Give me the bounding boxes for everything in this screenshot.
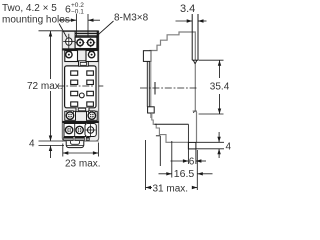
leader mounting holes xyxy=(59,24,67,38)
svg-text:−0.1: −0.1 xyxy=(71,9,84,16)
centerline side view xyxy=(140,87,197,89)
dim 72: extension top xyxy=(39,30,63,32)
terminal screw row1 a xyxy=(79,38,81,47)
divider line 2 xyxy=(62,121,98,123)
bottom tab xyxy=(66,141,84,148)
row3 left block xyxy=(65,111,76,120)
dim 72: line xyxy=(50,31,52,79)
dim 31: line xyxy=(146,187,153,189)
svg-text:31 max.: 31 max. xyxy=(153,184,189,195)
lever line xyxy=(155,123,189,125)
arrow 4R down xyxy=(217,137,220,143)
body bottom edge xyxy=(62,140,98,142)
dim 4 right: ext lines xyxy=(196,141,224,143)
arrow 6b right xyxy=(196,159,202,162)
body top edge xyxy=(62,30,98,32)
svg-text:6: 6 xyxy=(189,157,195,168)
mounting hole top-left xyxy=(66,38,72,46)
dim 23: line xyxy=(63,152,99,154)
dim 4 left ext lines xyxy=(39,140,64,142)
pin slot L3 xyxy=(71,91,78,95)
dim 3.4: line xyxy=(176,20,193,22)
clip vertical segment xyxy=(154,82,156,95)
arrow 4R up xyxy=(217,149,220,155)
dim 4 left below line xyxy=(50,146,52,159)
pin slot R2 xyxy=(87,80,94,84)
clip channel right line xyxy=(197,14,199,60)
arrow 16.5 right xyxy=(197,172,203,175)
row2 right screw xyxy=(89,51,94,53)
socket body xyxy=(62,31,98,141)
row1 screw box xyxy=(75,37,97,48)
arrow 3.4 left xyxy=(187,19,193,22)
front face gray back line xyxy=(150,51,152,118)
top strip hatch lines xyxy=(75,32,99,34)
dim 35.4: ext lines xyxy=(199,59,224,61)
row2 left screw xyxy=(66,51,71,53)
dim 6 top: extension lines xyxy=(75,14,77,37)
svg-text:mounting holes: mounting holes xyxy=(2,15,70,26)
row4 blocks outline xyxy=(64,124,86,137)
svg-text:4: 4 xyxy=(226,142,232,153)
bottom rail hook xyxy=(193,111,197,113)
side profile staircase top xyxy=(150,32,196,60)
bottom slot xyxy=(78,108,86,111)
mounting hole bottom-right xyxy=(85,124,96,137)
arrow 4L down xyxy=(49,136,52,142)
right edge lower xyxy=(193,111,197,113)
dim 31: ext lines xyxy=(145,140,147,190)
dim 16.5: line xyxy=(159,173,172,175)
arrow 23 left xyxy=(63,151,69,154)
svg-text:Two, 4.2 × 5: Two, 4.2 × 5 xyxy=(2,3,57,14)
arrow 31 right xyxy=(192,186,198,189)
bottom left edge black xyxy=(156,135,160,137)
terminal screw row1 b xyxy=(90,38,92,47)
top-right edge band xyxy=(97,31,99,49)
arrowheads xyxy=(49,19,221,190)
row3 left screw xyxy=(66,112,73,119)
pin slot R3 xyxy=(87,91,94,95)
row4 screw a xyxy=(65,126,72,133)
top notch xyxy=(79,61,89,66)
dim 35.4: line xyxy=(219,60,221,78)
strip left divider xyxy=(74,31,76,49)
side right edge upper (rail area) xyxy=(194,65,196,112)
dim 6 bottom: ext lines xyxy=(187,124,189,164)
clip channel bottom xyxy=(192,59,198,61)
arrow 35.4 top xyxy=(218,60,221,65)
top rail hook V xyxy=(193,60,197,64)
dim 6 top: arrows xyxy=(59,19,77,21)
pin slot L1 xyxy=(71,71,78,75)
front face double lines xyxy=(146,61,148,106)
clip channel left line xyxy=(191,14,193,60)
row3 right screw xyxy=(88,112,95,119)
pin slot L4 xyxy=(71,102,78,106)
pin slot R4 xyxy=(87,102,94,106)
svg-text:23 max.: 23 max. xyxy=(65,159,101,170)
leader 8-M3x8 xyxy=(96,21,114,37)
arrow 4L up xyxy=(49,146,52,152)
arrow 6 right xyxy=(88,19,94,22)
front face rect A xyxy=(143,51,151,62)
arrow 31 left xyxy=(146,186,152,189)
row2 left block xyxy=(65,51,78,62)
arrow 23 right xyxy=(93,151,99,154)
dim 4 right: line xyxy=(218,132,220,142)
divider band xyxy=(62,48,98,50)
row3 right block xyxy=(87,111,98,120)
bottom-left steps xyxy=(152,113,189,142)
bottom step box xyxy=(188,142,196,149)
dim 6 bottom: line xyxy=(171,160,189,162)
dim 16.5: ext lines xyxy=(171,141,173,178)
svg-text:3.4: 3.4 xyxy=(180,3,195,15)
arrow 6b left xyxy=(183,159,189,162)
centerline front view xyxy=(58,85,95,87)
center circle xyxy=(79,93,84,98)
svg-text:35.4: 35.4 xyxy=(210,81,230,92)
arrow 3.4 right xyxy=(198,19,204,22)
pin slot L2 xyxy=(71,80,78,84)
arrow 72 top xyxy=(49,31,52,37)
pin slot R1 xyxy=(87,71,94,75)
bottom strip xyxy=(63,137,73,141)
svg-text:16.5: 16.5 xyxy=(174,168,195,180)
bottom notch xyxy=(76,108,89,112)
arrow 16.5 left xyxy=(166,172,172,175)
arrow 6 left xyxy=(71,19,77,22)
arrow 35.4 bottom xyxy=(218,109,221,115)
row2 right block xyxy=(86,51,98,62)
svg-text:72 max.: 72 max. xyxy=(27,81,63,92)
svg-text:4: 4 xyxy=(29,138,35,149)
pin panel xyxy=(65,66,96,108)
front face bracket B xyxy=(148,107,155,113)
row4 screw b xyxy=(76,126,83,133)
dim 23: ext lines xyxy=(62,144,64,157)
svg-text:8-M3×8: 8-M3×8 xyxy=(114,13,149,24)
